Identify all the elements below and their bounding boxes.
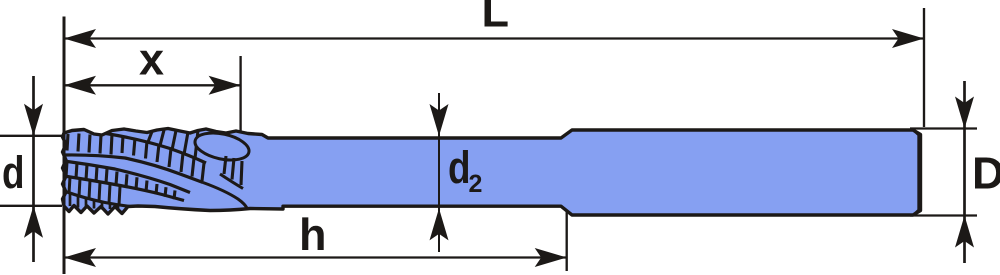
cutter texture: small ellipse flute end [193,129,252,165]
dimension L line [64,37,924,39]
cutter texture: band2 lower boundary C4 [64,176,184,201]
cutter texture: band1 upper boundary C1 [106,134,206,164]
dimension L right arrowhead [892,29,924,48]
dimension D bottom extension line [910,214,977,216]
dimension h right extension line [566,212,568,271]
dimension d top extension line [0,135,62,137]
dimension x right extension line [239,56,241,131]
cutter texture: boundary below-right of ellipse [220,174,243,189]
dimension d2 top arrowhead [430,104,449,136]
dimension D top extension line [910,127,977,129]
cutter texture: lower boundary Z [64,191,130,207]
dimension d bottom extension line [0,205,62,207]
svg-text:D: D [972,148,1000,199]
svg-text:h: h [299,209,327,260]
dimension x right arrowhead [209,76,241,95]
dimension L left arrowhead [64,29,96,48]
svg-text:2: 2 [468,170,482,198]
cutter texture: band1 lower boundary C2 [64,155,203,183]
dimension d2 vertical line through body [438,93,440,252]
dimension L right extension line [923,8,925,127]
dimension x line [64,84,241,86]
dimension d vertical line [32,76,35,262]
svg-text:d: d [2,148,25,198]
dimension D top arrowhead [955,97,974,129]
dimension D bottom arrowhead [955,216,974,248]
cutter texture: band2 upper boundary C3 [64,161,190,193]
dimension h right arrowhead [535,248,567,267]
dimension D vertical line [963,81,966,263]
cutter texture: rungs below-right of ellipse [224,156,242,185]
svg-text:d: d [448,143,471,193]
dimension x left arrowhead [64,76,96,95]
shank end chamfer lines [913,130,919,215]
cutter texture: right tip swoosh [203,183,247,209]
tool body (end mill silhouette: cutter + neck + shank) [63,129,921,216]
dimension h left arrowhead [64,248,96,267]
left extension line (tool face, L/x/h datum) [63,17,66,275]
cutter texture: band2 rungs [66,162,175,200]
cutter texture: row C4-Z rungs [69,177,120,205]
cutter texture: upper rungs from top edge to C1 [148,130,198,159]
dimension h line [64,256,567,258]
cutter texture: bottom stub rungs [70,193,118,210]
dimension d bottom arrowhead [24,206,43,238]
cutter texture: band1 rungs [67,134,204,182]
dimension d top arrowhead [24,104,43,136]
dimension d2 bottom arrowhead [430,208,449,240]
svg-text:x: x [139,34,164,85]
svg-text:L: L [481,0,509,37]
